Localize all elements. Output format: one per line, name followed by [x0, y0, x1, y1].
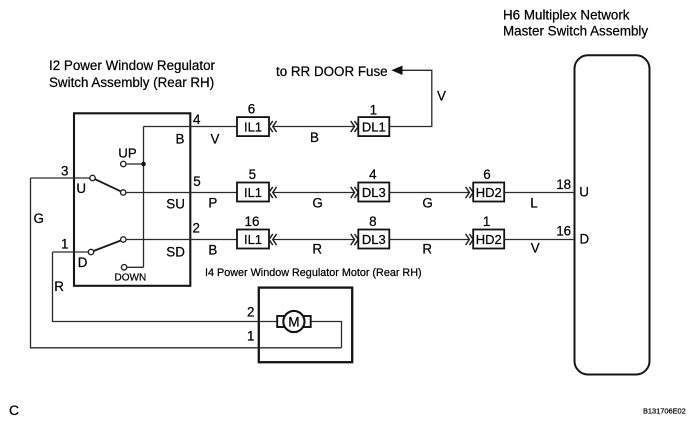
svg-text:U: U [579, 185, 589, 200]
wire: internal bus B (vertical inside switch) [143, 127, 145, 268]
connector chevrons HD2 row2 [466, 187, 474, 198]
svg-text:1: 1 [61, 236, 68, 251]
wire: V wire HD2 to H6 pin16 [504, 239, 574, 241]
svg-text:V: V [437, 89, 446, 104]
motor brush left [277, 316, 285, 327]
svg-text:4: 4 [369, 167, 377, 182]
wire: G wire DL3 to HD2 [389, 192, 469, 194]
svg-text:IL1: IL1 [244, 185, 262, 200]
svg-text:R: R [54, 279, 64, 294]
svg-text:B: B [310, 130, 319, 145]
svg-text:H6 Multiplex Network: H6 Multiplex Network [503, 8, 630, 23]
svg-text:1: 1 [483, 214, 490, 229]
wire: UP contact to bus [126, 163, 141, 165]
connector IL1 pin6 (row 1) [237, 117, 269, 136]
svg-text:L: L [530, 196, 537, 211]
svg-text:UP: UP [118, 145, 137, 160]
svg-text:V: V [211, 131, 220, 146]
svg-text:R: R [312, 242, 322, 257]
motor brush right [302, 316, 310, 327]
svg-text:DL1: DL1 [362, 119, 386, 134]
label: H6 Multiplex Network Master Switch Assembly [503, 8, 648, 39]
wire: motor internal link [311, 322, 342, 348]
wire: pin4 B wire to IL1 [144, 126, 238, 128]
wire: R wire IL1 to DL3 [273, 239, 355, 241]
svg-text:I2 Power Window Regulator: I2 Power Window Regulator [49, 58, 216, 73]
connector chevrons HD2 row3 [466, 234, 474, 245]
label: I2 Power Window Regulator Switch Assembly (Rear RH) [49, 58, 216, 90]
svg-text:SD: SD [166, 244, 185, 259]
svg-text:Master Switch Assembly: Master Switch Assembly [503, 23, 648, 38]
svg-text:G: G [422, 195, 432, 210]
connector IL1 pin5 (row 2) [237, 183, 269, 202]
svg-text:HD2: HD2 [476, 232, 502, 247]
svg-text:D: D [78, 255, 88, 270]
svg-text:8: 8 [369, 214, 376, 229]
wire: L wire HD2 to H6 pin18 [504, 192, 574, 194]
switch assembly I2 box [74, 113, 190, 285]
node: SD contact [121, 237, 126, 242]
svg-text:P: P [208, 195, 217, 210]
svg-text:1: 1 [247, 329, 254, 344]
wire: pin 3 (U) input [31, 177, 90, 179]
connector DL1 pin1 [358, 117, 389, 136]
svg-text:R: R [422, 242, 432, 257]
node: DOWN contact [121, 265, 126, 270]
wire: SD pin2 to IL1 [126, 239, 237, 241]
arrow to RR DOOR fuse [391, 66, 402, 75]
connector HD2 pin1 [473, 230, 504, 249]
connector chevrons IL1 row3 [269, 234, 277, 245]
connector DL3 pin4 [358, 183, 389, 202]
svg-text:B: B [208, 243, 217, 258]
svg-text:to RR DOOR Fuse: to RR DOOR Fuse [276, 64, 388, 79]
svg-text:SU: SU [166, 196, 185, 211]
svg-text:6: 6 [248, 101, 255, 116]
wire: DOWN contact to bus [127, 266, 144, 268]
svg-text:B131706E02: B131706E02 [643, 407, 686, 416]
connector HD2 pin6 [473, 183, 504, 202]
wire: B wire IL1 to DL1 [273, 126, 355, 128]
wire: R net (pin1 down and across to motor pin2) [53, 252, 278, 322]
node: SU contact [121, 190, 126, 195]
connector chevrons IL1 row2 [269, 187, 277, 198]
svg-text:I4 Power Window Regulator Moto: I4 Power Window Regulator Motor (Rear RH… [205, 267, 422, 279]
connector chevrons IL1 row1 [269, 121, 277, 132]
svg-text:G: G [312, 195, 322, 210]
svg-text:B: B [176, 132, 185, 147]
svg-text:18: 18 [556, 177, 571, 192]
motor assembly I4 box [259, 288, 352, 363]
connector chevrons DL1 [351, 121, 359, 132]
svg-text:3: 3 [61, 164, 68, 179]
svg-text:2: 2 [193, 221, 200, 236]
motor M1 circle [283, 311, 304, 332]
wire: DL1 up to fuse arrow [389, 70, 432, 126]
H6 multiplex master switch assembly box [575, 55, 650, 374]
wire: R wire DL3 to HD2 [389, 239, 469, 241]
svg-text:4: 4 [193, 112, 201, 127]
svg-text:V: V [531, 241, 540, 256]
connector chevrons DL3 row2 [351, 187, 359, 198]
svg-text:2: 2 [247, 305, 254, 320]
svg-text:5: 5 [193, 174, 200, 189]
svg-text:U: U [76, 181, 86, 196]
connector chevrons DL3 row3 [351, 234, 359, 245]
wire: SU pin5 to IL1 [126, 192, 237, 194]
node: pin3 contact [90, 175, 95, 180]
junction dot on bus [141, 162, 146, 167]
svg-text:G: G [34, 211, 44, 226]
svg-text:16: 16 [556, 224, 571, 239]
svg-text:D: D [580, 231, 590, 246]
node: UP contact [121, 161, 126, 166]
svg-text:HD2: HD2 [476, 185, 502, 200]
wire: pin 1 (D) input [53, 251, 89, 253]
wire: G wire IL1 to DL3 [273, 192, 355, 194]
connector DL3 pin8 [358, 230, 389, 249]
svg-text:IL1: IL1 [244, 119, 262, 134]
switch blade SU [95, 179, 121, 191]
svg-text:6: 6 [483, 167, 490, 182]
svg-text:1: 1 [370, 103, 377, 118]
svg-text:M: M [288, 314, 299, 329]
svg-text:DL3: DL3 [362, 232, 386, 247]
connector IL1 pin16 (row 3) [237, 230, 269, 249]
switch blade SD [94, 241, 121, 252]
svg-text:IL1: IL1 [244, 232, 262, 247]
svg-text:5: 5 [249, 167, 256, 182]
wire: G net (pin3 down and across to motor) [31, 178, 342, 348]
svg-text:C: C [9, 402, 19, 418]
node: pin1 contact [88, 249, 93, 254]
svg-text:16: 16 [245, 214, 260, 229]
svg-text:DL3: DL3 [362, 185, 386, 200]
svg-text:DOWN: DOWN [115, 273, 147, 284]
svg-text:Switch Assembly (Rear RH): Switch Assembly (Rear RH) [49, 75, 214, 90]
